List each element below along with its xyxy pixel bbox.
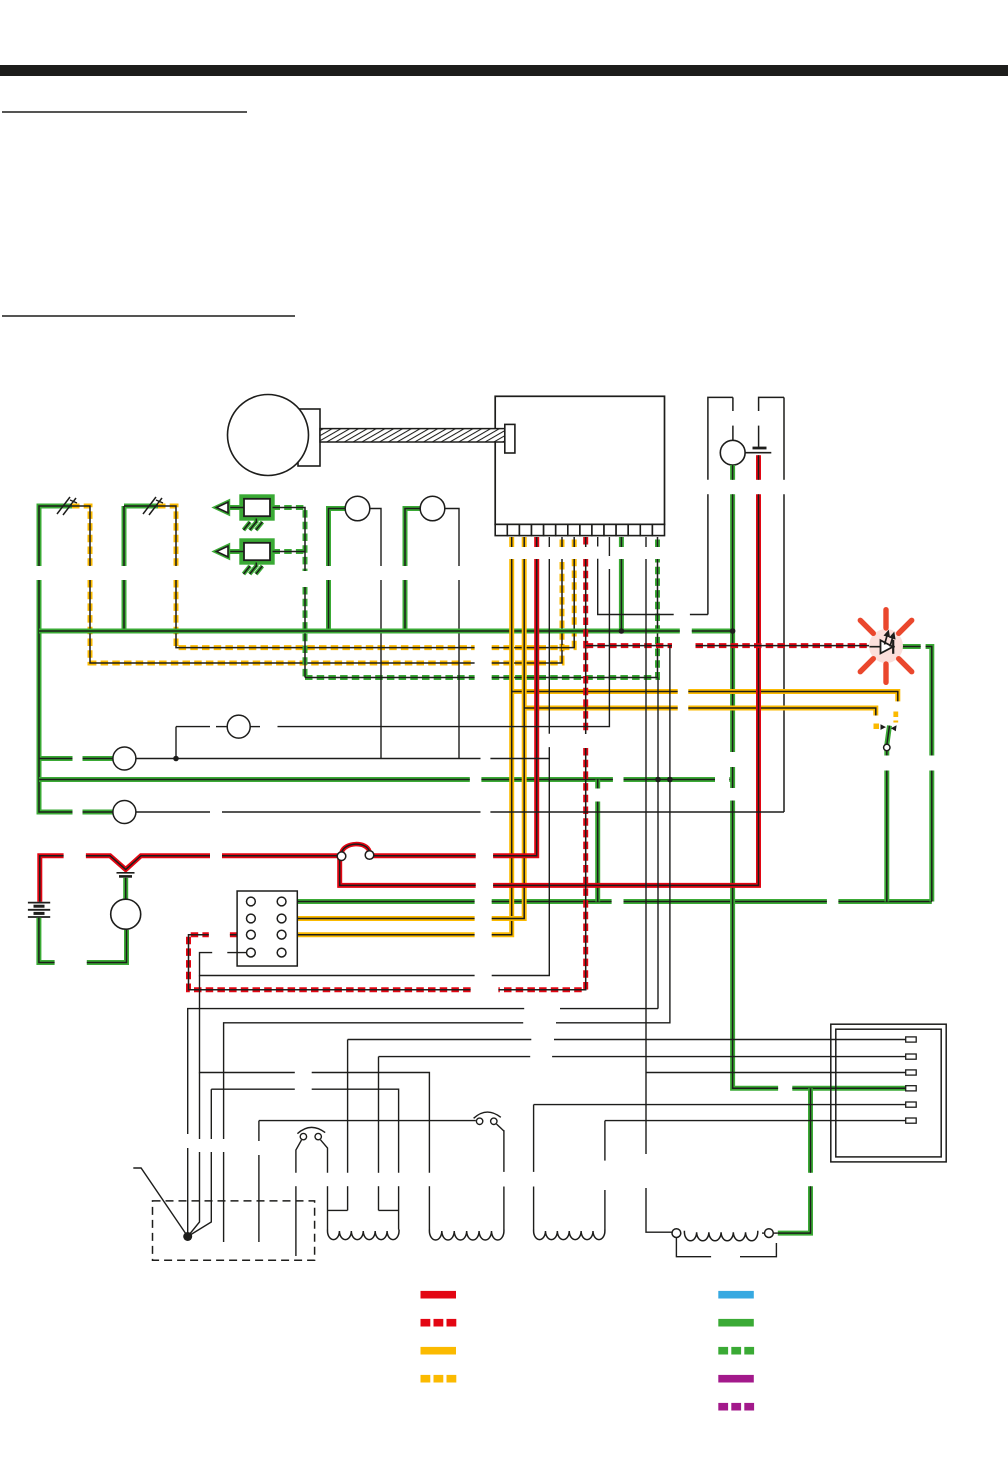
legend magenta dashed [718, 1403, 728, 1411]
wire green loop 1 with spark gap [39, 506, 113, 812]
battery terminal clamp [117, 873, 135, 877]
relay block K1 [237, 891, 297, 966]
lamp L2 [420, 496, 445, 521]
heading 1 underline [2, 111, 247, 113]
relay K1 row4 wire to U1 [200, 537, 550, 976]
orange wire U1 pin to relay row2 / switch [286, 537, 876, 919]
wire green loop 2 with spark gap [124, 506, 158, 631]
switch S1 lever drop to coil B [497, 1124, 504, 1230]
black wire coil C left to box pin5 [534, 1105, 907, 1230]
top black divider bar [0, 65, 1008, 76]
red-dash wire to LED indicator [586, 643, 870, 648]
battery B1 [28, 903, 50, 917]
green link bus2-bus3 [595, 780, 600, 902]
inductor coil C [534, 1230, 605, 1240]
black wire box pin1 chain [328, 1040, 907, 1211]
green switch lever wire [887, 726, 890, 902]
legend magenta solid [718, 1375, 754, 1383]
lamp L5 [227, 715, 250, 738]
lamp L3 [113, 801, 136, 824]
relay D frame [672, 1232, 778, 1257]
U1 connector pin row [495, 524, 664, 535]
heading 2 underline [2, 315, 295, 317]
lamp L1 [345, 496, 370, 521]
battery cell symbol B2 [745, 448, 771, 453]
red-dash wire U1 to relay row3 [189, 537, 586, 990]
orange wire U1 pin to relay row3 / switch [286, 537, 898, 935]
relay D coil [684, 1231, 757, 1241]
spark gap symbol 2 [143, 497, 163, 515]
toggle switch S3 pivot [884, 744, 890, 750]
black wire coil C right to box pin6 [605, 1121, 907, 1230]
chassis ground plate [153, 1201, 315, 1260]
black wire relay K1 chain down [188, 976, 430, 1237]
legend green dashed [718, 1347, 728, 1355]
red supply wire with fuse [40, 537, 537, 902]
junction nodes [173, 628, 735, 782]
legend green solid [718, 1319, 754, 1327]
solenoid valve Y2 [217, 541, 273, 575]
lamp L1 return wire [370, 509, 381, 759]
switch S2 leads [296, 1140, 328, 1256]
cable end connector [505, 424, 515, 453]
ground node [183, 1232, 192, 1241]
connector box X1 pins [906, 1037, 917, 1123]
green wire LED to bus 3 [894, 647, 932, 902]
ground lead-in [133, 1168, 187, 1237]
connector box X1 [831, 1024, 946, 1162]
legend orange solid [421, 1347, 457, 1355]
solenoid valve Y1 [217, 497, 273, 531]
wire lamp L3 line to housing [136, 811, 784, 813]
wire orange-dash loop 2 return [158, 506, 574, 648]
green bus 1 [39, 629, 733, 634]
connector housing frame left [708, 397, 733, 614]
fuse F1 [337, 844, 374, 860]
lamp L2 return wire [445, 509, 459, 759]
black wire box pin2 chain [379, 1057, 907, 1211]
legend orange dashed [421, 1375, 431, 1383]
spark gap symbol 1 [57, 497, 77, 515]
green wire terminal to generator [123, 878, 128, 900]
green drop to relay coil D [778, 1088, 811, 1233]
green wire housing lamp to relay box [733, 465, 907, 1088]
green bus 2 [39, 777, 733, 782]
wire green-dash solenoid feed [273, 508, 658, 678]
green bus 3 [286, 899, 932, 904]
motor M1 (starter) [228, 395, 321, 476]
control unit U1 [495, 396, 664, 524]
inductor coil A [328, 1230, 400, 1240]
black wire to coil A right [188, 1089, 399, 1236]
wire green lamp L2 feed [405, 509, 421, 632]
red wire fuse to battery B2 [340, 455, 759, 885]
black wire bus2 to chassis plate [224, 646, 670, 1242]
wire U1 pin to housing frame [598, 537, 708, 615]
LED flasher indicator H1 [860, 610, 911, 683]
lamp L6 (charge indicator) [113, 747, 136, 770]
wire green lamp L1 feed [329, 509, 346, 632]
wire U1 pin to lamp L5 [176, 537, 609, 727]
shielded cable to control box [320, 429, 505, 442]
switch S2 [297, 1127, 325, 1139]
generator G1 [111, 899, 141, 929]
wire orange-dash loop 1 return [72, 506, 562, 663]
legend red dashed [421, 1319, 431, 1327]
black wire U1 pin to box pin3 and relay coil D [646, 537, 907, 1232]
wire lamp circuit common [136, 727, 549, 759]
green wire battery negative [39, 918, 127, 963]
green wire U1 pin to bus 1 [619, 537, 624, 631]
legend red solid [421, 1291, 457, 1299]
connector housing frame right [759, 397, 784, 812]
inductor coil B [429, 1230, 504, 1241]
toggle switch S3 contacts [874, 712, 897, 732]
black wire switch S1 feed [259, 1121, 476, 1242]
relay D contact 2 [765, 1229, 774, 1238]
legend blue solid [718, 1291, 754, 1299]
relay D contact 1 [672, 1229, 681, 1238]
black core drop from solenoid dash corner to ground line [188, 678, 658, 1234]
switch S1 [474, 1112, 501, 1124]
warning lamp L4 in housing [720, 440, 745, 465]
